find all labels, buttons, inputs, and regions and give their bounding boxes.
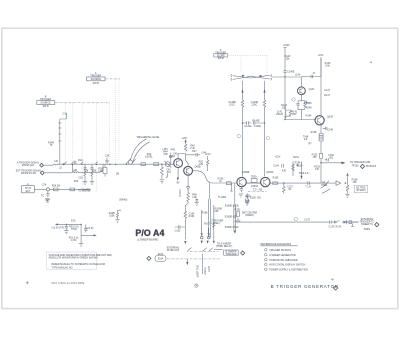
svg-text:3.5k: 3.5k <box>163 153 168 156</box>
ground symbol left column bottom <box>45 199 49 202</box>
title diamond <box>334 286 338 290</box>
wire: S40 linkage dotted vertical 1 <box>115 79 117 161</box>
wire: S14 linkage dotted vertical 1 <box>65 103 67 160</box>
resistor R141 parallel <box>285 110 292 120</box>
ground symbol below C24 <box>46 199 50 202</box>
switch linkage dashed row 2 <box>167 258 220 260</box>
wire: pot wiper curve 2 <box>133 142 150 162</box>
resistor R48 vertical <box>187 192 190 203</box>
wire: S40 linkage dotted vertical 2 <box>118 79 120 160</box>
svg-text:1.8k: 1.8k <box>198 163 203 166</box>
svg-text:TRIGGER: TRIGGER <box>226 253 237 256</box>
wire: S140 linkage dotted vertical right <box>266 55 268 73</box>
transistor Q45B internals <box>186 168 190 174</box>
svg-text:C148: C148 <box>327 129 333 132</box>
capacitor C20 to ground <box>65 224 68 230</box>
node dot C21 top <box>80 224 81 225</box>
node: output diamond <box>360 164 364 168</box>
svg-text:T.D. - B2: T.D. - B2 <box>253 189 263 192</box>
wire: Q145 emitter down <box>320 124 322 133</box>
svg-text:TRIGGER PICKOFF: TRIGGER PICKOFF <box>269 249 291 252</box>
resistor R42 vertical <box>160 164 163 179</box>
svg-text:C24: C24 <box>42 183 47 186</box>
ground below R30 network <box>90 181 94 184</box>
svg-text:1M: 1M <box>116 173 119 176</box>
svg-text:R176: R176 <box>336 226 342 229</box>
ground below C156 <box>245 200 249 203</box>
resistor R140B vertical <box>241 96 244 177</box>
wire: level wiper drop <box>201 254 203 274</box>
arrowhead down below switch <box>186 262 188 265</box>
svg-text:Q155A: Q155A <box>266 171 274 174</box>
node dot R140 column at crossover <box>284 76 285 77</box>
svg-text:R156: R156 <box>273 177 279 180</box>
capacitor C145 <box>305 101 309 104</box>
transistor Q145 internals <box>318 117 322 124</box>
svg-text:HORIZONTAL AMPLIFIER: HORIZONTAL AMPLIFIER <box>269 259 298 262</box>
svg-text:POWER SUPPLY & DISTRIBUTION: POWER SUPPLY & DISTRIBUTION <box>269 269 308 272</box>
svg-text:A175: A175 <box>208 266 211 272</box>
node: E164 diamond <box>147 256 151 260</box>
svg-text:C140C: C140C <box>254 125 262 128</box>
ground below E20 <box>79 243 83 246</box>
svg-text:ABSOLUTE WAVEFORM IN GREEN SHO: ABSOLUTE WAVEFORM IN GREEN SHOWN <box>49 257 99 260</box>
switch contact arm 2 <box>132 159 136 164</box>
svg-text:R160F 80.2k: R160F 80.2k <box>225 226 239 229</box>
svg-text:TRIGGERING LEVEL: TRIGGERING LEVEL <box>136 136 160 139</box>
svg-text:TC: TC <box>41 195 44 198</box>
transistor Q45A circle <box>174 159 183 168</box>
wire: main trigger row left <box>44 164 174 165</box>
svg-text:C140A: C140A <box>244 125 252 128</box>
svg-text:E164: E164 <box>158 257 164 260</box>
svg-text:REFERENCE DIAGRAMS: REFERENCE DIAGRAMS <box>261 242 292 246</box>
pot wiper circle <box>128 160 132 164</box>
svg-text:C156 .001: C156 .001 <box>250 197 262 200</box>
svg-text:E20: E20 <box>71 219 76 222</box>
resistor R152 box <box>320 153 323 158</box>
svg-text:Q141: Q141 <box>309 88 316 91</box>
capacitor C36 cluster <box>105 158 108 165</box>
connector E164 box <box>155 255 166 261</box>
svg-text:(B SWP): (B SWP) <box>356 189 366 192</box>
switch contact arm 1 <box>127 159 132 164</box>
wire: +15V column <box>320 58 322 77</box>
svg-text:C150A: C150A <box>251 185 259 188</box>
svg-text:Q45A: Q45A <box>169 155 176 158</box>
resistor R154 ticks <box>292 164 294 171</box>
reference item 3 <box>265 258 268 261</box>
svg-text:SOURCE: SOURCE <box>91 78 102 81</box>
wire: S140 linkage dotted vertical left <box>240 55 242 72</box>
wire: main row center-right <box>193 171 346 183</box>
switch crossover terminals left <box>230 75 233 81</box>
svg-text:TL DB4: TL DB4 <box>218 196 227 199</box>
svg-text:+15V: +15V <box>235 220 241 223</box>
transistor Q45B circle <box>184 166 193 175</box>
capacitor C22 on row <box>75 161 76 164</box>
svg-text:C162: C162 <box>175 230 181 233</box>
svg-text:LEVEL: LEVEL <box>145 156 153 159</box>
svg-text:1.8k: 1.8k <box>98 170 103 173</box>
arrowhead trigger output <box>342 162 346 165</box>
trigger level divider right rail <box>234 183 236 231</box>
capacitor C21 double vertical <box>81 224 88 235</box>
svg-text:C176: C176 <box>329 226 335 229</box>
arrowhead left at E20 row start <box>55 223 58 225</box>
node dot right of Q155 <box>283 182 284 183</box>
wire: Q45B emitter down <box>187 175 189 186</box>
svg-text:464 OSCILLOSCOPE: 464 OSCILLOSCOPE <box>51 281 84 285</box>
wire: R154 bottom to row with arrow <box>301 162 303 179</box>
arrowheads into divider bottom circles <box>201 233 210 236</box>
svg-text:EXT: EXT <box>26 190 31 193</box>
+15V arrow R171 area <box>237 218 239 220</box>
transistor Q45A internals <box>176 160 180 166</box>
svg-text:-8V: -8V <box>176 182 180 185</box>
svg-text:C154: C154 <box>273 165 279 168</box>
svg-text:R160E 825: R160E 825 <box>225 215 238 218</box>
svg-text:5.6k: 5.6k <box>325 65 330 68</box>
node dot B <box>345 182 346 183</box>
connector pin circle <box>46 188 49 191</box>
wire: R140 column down to L141 <box>284 77 286 110</box>
zone marker circle 2 <box>237 135 240 138</box>
arrowhead on main row <box>63 163 66 165</box>
svg-text:+100V: +100V <box>283 44 290 47</box>
resistor R161 box <box>237 212 240 217</box>
capacitor C158 on row <box>308 181 310 185</box>
svg-text:.001: .001 <box>329 157 334 160</box>
resistor R24 on wire <box>50 188 91 191</box>
inductor L20 on main row <box>53 164 60 165</box>
svg-text:R161: R161 <box>235 209 241 212</box>
svg-text:R47: R47 <box>192 150 197 153</box>
svg-text:R144: R144 <box>306 114 312 117</box>
switch S40 A TRIGGER SOURCE box <box>87 77 105 81</box>
node junction R42 tap <box>161 164 162 165</box>
diode CR178 <box>344 220 349 224</box>
svg-text:101C: 101C <box>229 103 235 106</box>
svg-text:R30: R30 <box>74 180 79 183</box>
+15V arrow at top of R46 <box>185 142 187 143</box>
wire: E20 row <box>58 223 82 225</box>
resistor R41 box on row <box>141 163 145 166</box>
resistor R157 vertical <box>282 183 285 193</box>
switch S140 A TRIGGER SLOPE box <box>214 54 228 57</box>
wire: divider output row <box>236 221 359 223</box>
capacitor C156 below TD50 <box>246 194 250 199</box>
wire: +15V jog to Q141 <box>306 76 322 78</box>
svg-text:C140E: C140E <box>287 71 295 74</box>
label box B2 TRIGGER <box>354 185 368 192</box>
wire: Q145 collector up to +15V column <box>320 58 322 116</box>
resistor R43 box on row <box>154 163 159 166</box>
node circles at divider bottom <box>200 236 203 239</box>
potentiometer HF STAB curve <box>321 181 331 194</box>
wire: down to Q141 <box>302 76 306 78</box>
wire: output tap to arrow <box>321 162 342 164</box>
svg-text:(RADR): (RADR) <box>245 214 254 217</box>
resistor R14 chain vertical <box>58 119 62 148</box>
arrowhead down column 3 <box>207 241 209 244</box>
wire: E20 lower branch right with arrow <box>81 234 94 236</box>
svg-text:R147: R147 <box>324 94 330 97</box>
wire: T148 down to R152 <box>320 141 322 153</box>
svg-text:56K: 56K <box>215 210 220 213</box>
capacitor C43 above row <box>169 153 172 165</box>
svg-text:470: 470 <box>315 168 320 171</box>
svg-text:Q145: Q145 <box>327 115 334 118</box>
wire: S14 linkage dotted vertical 5 <box>109 103 111 162</box>
node dot output tap <box>320 162 321 163</box>
node: ext trigger diamond <box>375 223 379 227</box>
notes box <box>46 252 96 270</box>
capacitor C150 below Q150 <box>240 187 244 192</box>
svg-text:Q150B: Q150B <box>242 171 250 174</box>
wire: S14 linkage dotted vertical 3 <box>81 103 83 191</box>
svg-text:R166: R166 <box>202 212 208 215</box>
arrowhead down column 1 <box>184 241 186 244</box>
node: input diamond 2 <box>40 171 44 175</box>
svg-text:STAB: STAB <box>321 184 327 187</box>
svg-text:L140: L140 <box>295 73 301 76</box>
ground below C150 <box>239 194 243 197</box>
trigger level divider left rail <box>208 183 210 237</box>
svg-text:(THRU RELAY): (THRU RELAY) <box>216 245 233 248</box>
wire: pot wiper curve 1 <box>131 139 147 160</box>
svg-text:C31 R31: C31 R31 <box>81 189 91 192</box>
transistor Q141 circle <box>298 87 306 95</box>
node: B sweep diamond <box>241 251 245 255</box>
svg-text:LEVEL): LEVEL) <box>212 222 220 225</box>
wire: S40 linkage dashed horizontal <box>105 78 120 80</box>
arrowhead down column 4 <box>213 241 215 244</box>
dashed label box TD-B <box>248 191 267 193</box>
svg-text:100k: 100k <box>109 215 115 218</box>
zone marker circle near Q141 <box>292 98 295 101</box>
diode CR48 <box>187 187 190 193</box>
wire: to Q145 base <box>285 119 315 121</box>
svg-text:C146: C146 <box>306 102 312 105</box>
transistor Q141 internals <box>300 88 303 94</box>
zone marker circled E on output row <box>294 217 297 220</box>
svg-text:C21 33: C21 33 <box>86 227 94 230</box>
buffer arrow on row <box>336 181 341 186</box>
svg-text:SWEEP T2: SWEEP T2 <box>361 223 374 226</box>
gate symbol crossed circle <box>164 161 171 178</box>
wire: S14 ganged linkage dashed horizontal <box>55 102 110 104</box>
svg-text:R140E: R140E <box>252 120 260 123</box>
svg-text:TD50: TD50 <box>251 175 258 178</box>
svg-text:R164: R164 <box>189 215 195 218</box>
svg-text:FROM P/A A5: FROM P/A A5 <box>21 172 37 175</box>
wire: Q141 emitter down <box>296 95 306 110</box>
arrowhead down column 2 <box>201 241 203 244</box>
svg-text:R24 1M: R24 1M <box>52 184 60 187</box>
switch crossover terminals right <box>270 74 273 80</box>
resistor R169 with ground top left of divider <box>195 199 199 206</box>
svg-text:+15V: +15V <box>205 153 211 156</box>
switch S14 B TRIGGER SOURCE box <box>37 101 55 105</box>
resistor R30 stub below row <box>90 164 93 181</box>
wire: Q45A collector up to Q45B base link <box>178 154 186 159</box>
wire: short stub below arrow <box>186 259 188 262</box>
node dots C140A <box>242 122 243 123</box>
svg-text:(TRIG): (TRIG) <box>179 189 182 197</box>
switch linkage dashed row 1 <box>190 250 219 252</box>
zone marker circle 3 <box>266 137 269 140</box>
svg-text:L20: L20 <box>54 160 59 163</box>
svg-text:C30: C30 <box>78 176 83 179</box>
svg-text:C14: C14 <box>63 113 68 116</box>
svg-text:R167: R167 <box>204 223 210 226</box>
transistor Q150 circle <box>237 177 246 186</box>
capacitor C154 <box>282 164 284 168</box>
svg-text:& SWEEP BOARD: & SWEEP BOARD <box>137 238 158 241</box>
transistor Q155 circle <box>261 177 270 186</box>
svg-text:ATTEN 10X: ATTEN 10X <box>167 249 180 252</box>
svg-text:PICKOFF: PICKOFF <box>366 165 377 168</box>
wire: R14 chain bottom drop <box>59 148 61 164</box>
svg-text:100: 100 <box>353 181 358 184</box>
capacitor C148 <box>323 127 327 130</box>
svg-text:150: 150 <box>313 156 318 159</box>
svg-text:R171: R171 <box>245 195 251 198</box>
node junction dots on row <box>109 164 110 165</box>
wire: right slope output vertical <box>264 81 266 96</box>
svg-text:R160D 80.2k: R160D 80.2k <box>225 204 240 207</box>
capacitor C30 stub below row <box>83 164 86 181</box>
transistor Q155 internals <box>264 179 268 186</box>
B SWEEP TRIGGER box <box>224 250 239 255</box>
switch contacts row 1 <box>187 248 213 252</box>
wire: R14 chain top elbow <box>60 114 67 119</box>
svg-text:SW B: SW B <box>218 57 225 60</box>
svg-text:+15V: +15V <box>181 137 187 140</box>
svg-text:P/O A4: P/O A4 <box>135 228 164 238</box>
node dot E20 row <box>66 224 67 225</box>
wire: Q141 emitter chain to Q145 <box>300 110 302 120</box>
svg-text:C147: C147 <box>324 89 330 92</box>
wire: down to ground <box>80 235 82 243</box>
capacitor C140E <box>283 70 286 77</box>
reference item 2 <box>265 253 268 256</box>
wire: switch row1 to B SWEEP box <box>214 249 223 251</box>
svg-text:R151: R151 <box>293 156 299 159</box>
node: input diamond 1 <box>40 163 44 167</box>
wire: S14 linkage dotted vertical 4 <box>96 103 98 191</box>
resistor R164 vertical <box>184 210 187 239</box>
resistor R158 vertical <box>346 185 349 194</box>
zone marker circled 4 bottom <box>195 284 198 287</box>
wire: left slope output vertical <box>242 81 244 96</box>
resistor R26 on wire <box>70 188 75 191</box>
svg-text:C176: C176 <box>304 218 310 221</box>
resistor R167 on column <box>213 222 215 228</box>
stub below row at 72.6 <box>72 164 74 171</box>
wire: S14 linkage dotted vertical 2 <box>72 103 74 170</box>
node tick below <box>351 223 354 226</box>
resistor R150 box on row <box>227 182 233 191</box>
svg-text:L28: L28 <box>73 169 78 172</box>
ground below C20 <box>64 231 68 234</box>
capacitor TC below pin <box>46 191 49 197</box>
wire: crossover to R140 column <box>272 77 302 87</box>
svg-text:R22: R22 <box>78 159 83 162</box>
capacitor C44 <box>186 153 200 156</box>
capacitor C176 series <box>328 220 341 223</box>
svg-text:TP150: TP150 <box>351 164 359 167</box>
wire: R152 down to main row <box>320 159 322 184</box>
wire: R48 column continues down <box>185 204 188 211</box>
svg-text:R146: R146 <box>306 106 312 109</box>
svg-text:103: 103 <box>282 107 287 110</box>
svg-text:B TRIGGER GENERATOR: B TRIGGER GENERATOR <box>271 284 339 289</box>
ground R171 <box>245 199 249 206</box>
svg-text:C36: C36 <box>105 155 110 158</box>
wire: S140 linkage dotted horizontal <box>228 54 267 56</box>
reference item 5 <box>265 268 268 271</box>
wire: Q45A emitter to -8V arrow <box>177 168 179 178</box>
wire: Q45B collector up branch <box>186 154 189 167</box>
wire: J22 to pin circle <box>34 188 46 190</box>
wire: B node vertical <box>347 176 349 185</box>
svg-text:430: 430 <box>282 169 287 172</box>
ground below R158 <box>345 194 349 197</box>
inductor L28 on second row <box>72 172 78 173</box>
svg-text:FROM Q24: FROM Q24 <box>22 164 35 167</box>
wire: divider bottom arrow <box>234 232 236 234</box>
svg-text:LEVEL): LEVEL) <box>204 267 207 275</box>
capacitor C140A between columns <box>243 121 265 124</box>
resistor R178 small box <box>349 221 359 224</box>
resistor R140D vertical <box>263 96 266 176</box>
switch crossover blades X <box>233 75 270 79</box>
ground below C30 network <box>83 181 87 184</box>
capacitor C152 <box>325 158 329 161</box>
switch contact diagonals on main row <box>64 162 98 164</box>
ground below R42 <box>160 180 164 183</box>
inductor L141 <box>285 110 286 118</box>
svg-text:A SWEEP GENERATOR: A SWEEP GENERATOR <box>269 254 296 257</box>
tunnel diode TD50 box <box>246 179 260 184</box>
transistor Q145 circle <box>315 116 324 125</box>
svg-text:650: 650 <box>292 113 297 116</box>
svg-text:(SW40): (SW40) <box>119 198 127 201</box>
svg-text:R148: R148 <box>311 131 317 134</box>
svg-text:AMPL: AMPL <box>364 228 371 231</box>
svg-text:SW B: SW B <box>42 105 49 108</box>
svg-text:R45: R45 <box>171 148 176 151</box>
wire: ext trigger second row <box>45 164 104 172</box>
capacitor C162 <box>175 225 186 228</box>
svg-text:B150: B150 <box>297 165 303 168</box>
plus mark bottom left <box>26 281 29 284</box>
svg-text:TYPE MANUAL NO: TYPE MANUAL NO <box>52 266 73 269</box>
svg-text:+12.5V (TP): +12.5V (TP) <box>51 226 64 229</box>
svg-text:HOR CONTAL DISPLAY SWITCH: HOR CONTAL DISPLAY SWITCH <box>269 264 305 267</box>
resistor R36 box <box>103 164 107 176</box>
arrowhead up on left vertical <box>241 89 243 92</box>
switch crossover contact dots <box>242 75 262 77</box>
svg-text:100uH: 100uH <box>276 113 283 116</box>
arrowhead up on right vertical <box>263 89 265 92</box>
svg-text:SW B: SW B <box>93 82 100 85</box>
transformer T148 symbol <box>319 134 323 142</box>
svg-text:T 1-8: T 1-8 <box>305 186 311 189</box>
node dot below L141 <box>284 119 285 120</box>
